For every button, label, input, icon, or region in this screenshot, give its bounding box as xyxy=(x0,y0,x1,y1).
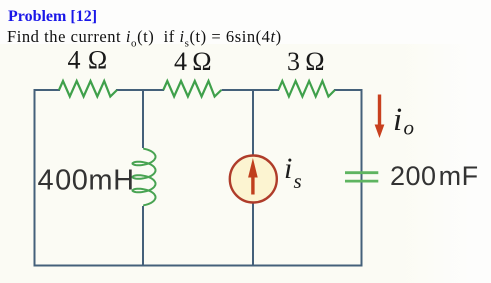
capacitor C1 top plate xyxy=(345,171,378,174)
svg-text:3 Ω: 3 Ω xyxy=(287,47,325,76)
svg-text:4 Ω: 4 Ω xyxy=(68,46,108,75)
wire: left vertical branch xyxy=(34,89,36,267)
current source IS circle xyxy=(230,156,277,203)
resistor R2 4ohm zigzag xyxy=(163,81,221,97)
svg-text:i: i xyxy=(284,152,292,185)
wire: current-source branch lower segment xyxy=(252,202,254,266)
title xyxy=(8,8,97,26)
wire: bottom rail xyxy=(34,265,363,267)
inductor L1 coil xyxy=(133,149,156,205)
resistor R3 3ohm zigzag xyxy=(278,81,335,97)
wire: top rail left segment xyxy=(34,89,60,91)
resistor R1 4ohm zigzag xyxy=(59,81,117,97)
svg-text:o: o xyxy=(404,116,415,140)
wire: current-source branch upper segment xyxy=(252,89,254,156)
svg-text:i: i xyxy=(393,102,402,138)
svg-text:200mF: 200mF xyxy=(390,161,479,191)
wire: top rail right segment xyxy=(334,89,362,91)
output current i_o arrow (down) xyxy=(375,95,385,139)
wire: top rail between R1 and R2 xyxy=(116,89,164,91)
svg-text:400mH: 400mH xyxy=(38,165,135,197)
svg-text:4 Ω: 4 Ω xyxy=(174,47,212,76)
svg-text:s: s xyxy=(294,169,302,193)
wire: inductor branch lower segment xyxy=(142,206,144,266)
wire: right vertical branch xyxy=(361,89,363,267)
wire: top rail between R2 and R3 xyxy=(222,89,280,91)
capacitor C1 bottom plate xyxy=(345,180,378,183)
wire: inductor branch upper segment xyxy=(142,89,144,148)
current source IS arrow (up) xyxy=(248,158,258,195)
problem statement xyxy=(7,27,282,49)
